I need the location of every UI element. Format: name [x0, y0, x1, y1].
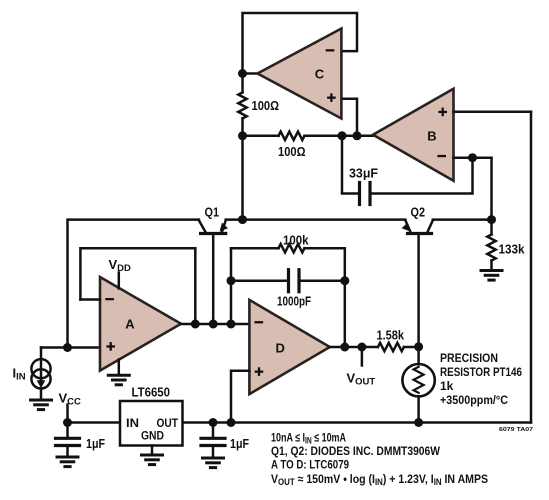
svg-text:A TO D: LTC6079: A TO D: LTC6079 [271, 458, 349, 472]
op-amp A body [100, 277, 181, 371]
D plus [255, 371, 264, 373]
wire node to 100ohm vertical resistor [241, 74, 244, 93]
op-amp plus minus signs [105, 49, 447, 376]
wire 100k row left [231, 247, 279, 250]
node dot Q1 base junction [209, 320, 218, 329]
node dot C plus branch [353, 131, 362, 140]
wire A inverting input [80, 298, 100, 301]
wire bottom rail left of LT6650 [68, 421, 121, 424]
capacitor 33uF plates [368, 183, 371, 205]
svg-text:VDD: VDD [109, 257, 132, 274]
svg-text:VOUT ≈ 150mV • log (IIN) + 1.2: VOUT ≈ 150mV • log (IIN) + 1.23V, IIN IN… [271, 472, 488, 487]
svg-text:VCC: VCC [59, 391, 82, 408]
op-amp B body [373, 89, 454, 181]
wire C non-inverting input down to row [341, 99, 357, 136]
transistor Q2 [402, 220, 433, 346]
capacitor 1uF right [201, 423, 225, 457]
D minus [255, 321, 264, 323]
current source IIN [31, 359, 50, 388]
node C output dot [238, 69, 247, 78]
svg-text:LT6650: LT6650 [132, 386, 171, 400]
resistor R 100ohm horizontal [279, 132, 305, 140]
B plus [438, 111, 447, 113]
wire junction down to 133k [490, 220, 493, 235]
resistor R 100ohm vertical [238, 92, 246, 118]
node dot D output feedback junction [340, 343, 349, 352]
svg-text:+3500ppm/°C: +3500ppm/°C [440, 393, 508, 407]
wire 1000pF row left [231, 279, 287, 282]
transistor Q1 [199, 220, 228, 324]
op-amp D body [249, 300, 329, 394]
wire bottom rail right of LT6650 [183, 421, 532, 424]
capacitor 1000pF plates [287, 270, 290, 292]
wire VOUT stub [361, 347, 364, 366]
wire D feedback right leg [344, 248, 347, 347]
wire A VDD stub [118, 273, 121, 289]
svg-text:1k: 1k [440, 379, 454, 393]
wire row y136 left segment [243, 135, 279, 138]
node dot B inverting input [468, 153, 477, 162]
ground for 1uF right [203, 458, 224, 468]
node dot 33uF branch [338, 131, 347, 140]
wire 100k row right [305, 247, 345, 250]
svg-text:1μF: 1μF [230, 436, 249, 451]
svg-text:Q2: Q2 [411, 205, 426, 220]
node dot D feedback left junction [227, 320, 236, 329]
thermistor PT146 body [402, 364, 434, 396]
svg-text:100k: 100k [283, 233, 309, 248]
svg-text:100Ω: 100Ω [278, 144, 306, 159]
svg-text:D: D [276, 340, 285, 355]
svg-text:IN: IN [126, 416, 139, 430]
A plus [106, 345, 115, 347]
node dot emitter row rail junction [238, 215, 247, 224]
node dot A feedback output junction [191, 320, 200, 329]
ground for 133k [481, 271, 502, 281]
svg-text:33μF: 33μF [349, 166, 378, 181]
wire B minus down to Q2 collector row [490, 158, 493, 220]
node dot D plus rail junction [227, 418, 236, 427]
wire A feedback loop [80, 248, 195, 324]
wire LT6650 GND pin [151, 446, 154, 454]
resistor R 133k vertical [487, 235, 495, 261]
svg-text:1.58k: 1.58k [377, 328, 405, 343]
capacitor 1uF left [56, 423, 80, 456]
svg-text:B: B [427, 129, 436, 144]
wire Q1/Q2 emitter row [226, 218, 406, 221]
node dot PT146 top junction [414, 342, 423, 351]
node dot VOUT junction [357, 343, 366, 352]
node junction dot at 100ohm row [238, 131, 247, 140]
node dot Q2 collector junction [487, 215, 496, 224]
wire resistor to row node [241, 118, 244, 135]
C minus [326, 49, 335, 51]
wire Q2 collector to junction [433, 218, 492, 221]
svg-text:6079 TA07: 6079 TA07 [499, 427, 533, 433]
node dot A plus junction [63, 343, 72, 352]
svg-text:GND: GND [141, 429, 164, 443]
wire vertical rail down to Q1 emitter row [241, 136, 244, 220]
ground for op-amp A [108, 375, 129, 385]
B minus [437, 155, 446, 157]
IC LT6650 box [120, 401, 183, 446]
svg-text:C: C [315, 67, 325, 82]
wire row y136 right segment to op-amp B apex [305, 135, 374, 138]
wire far right vertical rail [530, 112, 533, 423]
svg-text:1μF: 1μF [86, 436, 105, 451]
ground for 1uF left [57, 457, 78, 467]
C plus [327, 97, 336, 99]
node dot VCC junction [63, 418, 72, 427]
wire D feedback left leg [230, 248, 233, 324]
wire 133k to ground [490, 261, 493, 270]
resistor R 1.58k [378, 343, 404, 351]
wire IIN to ground [40, 389, 43, 399]
wire 33uF branch down from B minus [372, 158, 473, 194]
op-amp C body [258, 29, 342, 119]
wire A ground stub [118, 360, 121, 375]
wire D plus input to bottom rail [231, 371, 249, 423]
svg-text:A: A [125, 317, 135, 332]
wire A non-inverting input row [41, 346, 100, 349]
wire IIN source stub up [40, 348, 43, 360]
ground for IIN [31, 400, 52, 410]
svg-text:Q1, Q2: DIODES INC. DMMT3906W: Q1, Q2: DIODES INC. DMMT3906W [271, 444, 441, 458]
svg-text:VOUT: VOUT [347, 371, 376, 388]
wire A output row to D inverting input [181, 323, 249, 326]
wire PT146 to bottom rail [417, 396, 420, 422]
node dot 1uF right junction [209, 418, 218, 427]
A minus [105, 298, 114, 300]
ground for LT6650 [142, 455, 163, 465]
node dot 1000pF right junction [340, 276, 349, 285]
svg-text:PRECISION: PRECISION [440, 351, 498, 365]
wire C output to node [243, 72, 258, 75]
wire D output row [330, 346, 378, 349]
svg-text:Q1: Q1 [205, 205, 220, 220]
svg-text:1000pF: 1000pF [277, 294, 311, 309]
wire C feedback loop (output to inverting input) [243, 13, 358, 74]
wire 1000pF row right [301, 279, 345, 282]
svg-text:IIN: IIN [13, 366, 26, 383]
wire VCC stub [66, 405, 69, 423]
resistor R 100k [279, 244, 305, 252]
wire 33uF left to vertical up to row [342, 136, 358, 194]
svg-text:100Ω: 100Ω [252, 98, 280, 113]
svg-text:RESISTOR PT146: RESISTOR PT146 [440, 365, 522, 379]
wire 1.58k to PT146 node [404, 346, 419, 349]
wire B inverting input row [454, 156, 492, 159]
node dot PT146 rail junction [414, 418, 423, 427]
wire B non-inverting output loop to far right rail [454, 110, 532, 113]
wire Q1 collector to left loop [68, 220, 199, 348]
svg-text:133k: 133k [499, 242, 526, 257]
node dot 1000pF left junction [227, 276, 236, 285]
wire node to PT146 [417, 347, 420, 364]
